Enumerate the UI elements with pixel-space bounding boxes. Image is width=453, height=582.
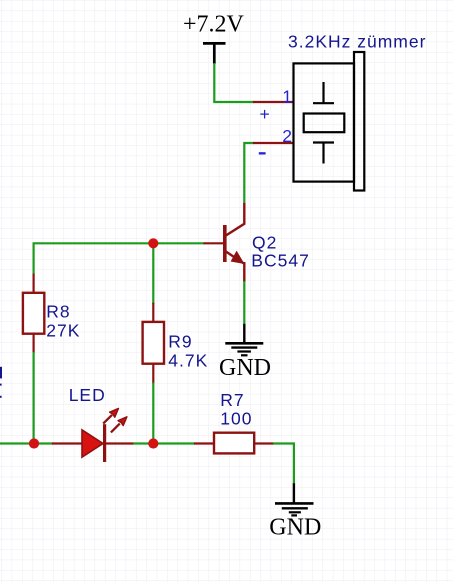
transistor Q2 emitter (226, 251, 244, 263)
svg-text:BC547: BC547 (251, 250, 310, 270)
wire R9 bottom (152, 383, 154, 444)
LED cathode bar (103, 424, 106, 462)
wire buzzer pin 2 to transistor collector (244, 143, 254, 204)
resistor R8 (23, 293, 44, 334)
LED D? triangle (82, 430, 103, 457)
wire R9 top (152, 243, 154, 303)
wire emitter to GND (243, 281, 245, 324)
ground symbol (R7) (275, 483, 314, 515)
pin stub R7 right (254, 442, 274, 444)
junction node R8/R9/base (148, 238, 158, 248)
pin polarity - (259, 152, 266, 154)
LED light arrow 1 (103, 408, 118, 423)
svg-text:1: 1 (282, 86, 292, 106)
junction node right (148, 438, 158, 448)
svg-text:100: 100 (220, 408, 252, 428)
pin stub R9 top (152, 303, 154, 323)
wire stub buzzer pin 2 (253, 142, 294, 144)
power symbol +7.2V T-bar (203, 43, 226, 64)
pin stub R8 top (32, 274, 34, 294)
svg-text:GND: GND (269, 515, 321, 541)
svg-text:+7.2V: +7.2V (183, 11, 245, 37)
svg-text:R8: R8 (46, 301, 70, 321)
wire rail R8 to transistor base (34, 242, 205, 244)
svg-text:2: 2 (282, 126, 292, 146)
buzzer LS1 body (294, 52, 365, 191)
wire power to buzzer pin 1 (214, 63, 254, 102)
transistor Q2 emitter arrowhead (231, 251, 245, 264)
pin stub R9 bottom (152, 364, 154, 384)
buzzer crystal symbol (304, 82, 345, 164)
svg-text:27K: 27K (46, 320, 80, 340)
pin stub LED anode (52, 442, 83, 444)
pin stub LED cathode (106, 442, 134, 444)
junction node left (29, 438, 39, 448)
wire junction to R7 (153, 442, 195, 444)
resistor R9 (143, 322, 164, 364)
svg-text:R9: R9 (168, 331, 192, 351)
svg-text:3.2KHz zümmer: 3.2KHz zümmer (288, 32, 426, 52)
wire left edge to LED anode (0, 442, 53, 444)
wire LED to junction (133, 442, 154, 444)
svg-text:+: + (260, 104, 270, 124)
wire emitter red (243, 262, 245, 282)
svg-text:4.7K: 4.7K (168, 350, 208, 370)
pin stub R7 left (194, 442, 215, 444)
svg-text:GND: GND (219, 355, 271, 381)
wire R8 top (32, 242, 34, 274)
wire stub buzzer pin 1 (253, 101, 294, 103)
wire R7 to GND (273, 444, 294, 485)
transistor Q2 base bar (223, 225, 227, 262)
pin stub R8 bottom (32, 334, 34, 353)
truncated label fragment left edge (0, 367, 2, 398)
svg-text:R7: R7 (220, 390, 244, 410)
resistor R7 (214, 433, 254, 454)
svg-text:LED: LED (69, 385, 106, 405)
LED light arrow 2 (111, 417, 127, 433)
ground symbol (emitter) (225, 324, 263, 356)
transistor Q2 collector (226, 203, 245, 236)
wire stub transistor base (204, 242, 224, 244)
wire R8 bottom (32, 352, 34, 444)
